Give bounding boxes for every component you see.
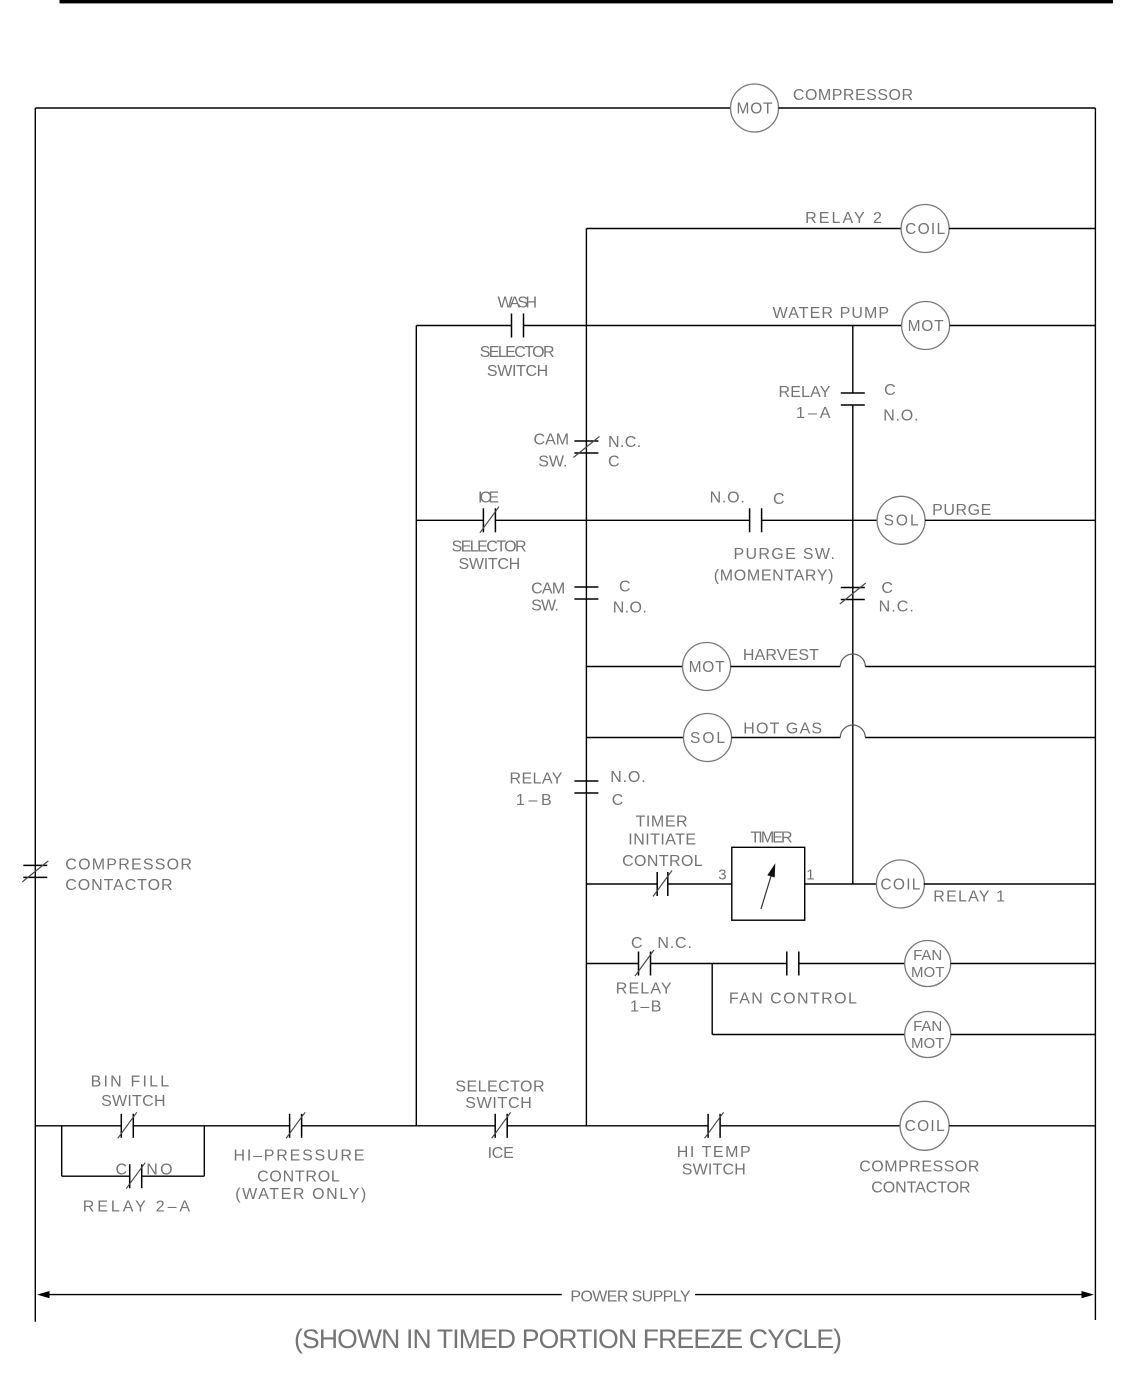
svg-text:COIL: COIL: [905, 1118, 945, 1135]
contact TIMER INITIATE CONTROL contact: [653, 871, 672, 897]
wire rung timer seg d: [924, 883, 1096, 885]
svg-text:1–B: 1–B: [516, 792, 552, 809]
svg-text:SWITCH: SWITCH: [459, 556, 521, 573]
wire rung fan1 seg b: [651, 963, 787, 965]
svg-text:MOT: MOT: [689, 659, 726, 676]
contact ICE selector switch contact: [480, 507, 499, 533]
motor FAN MOT 1: [905, 941, 951, 987]
svg-text:COIL: COIL: [880, 876, 920, 893]
contact HI TEMP SWITCH contact: [705, 1112, 724, 1138]
contact contact purge valve C N.C.: [840, 583, 866, 604]
svg-text:SWITCH: SWITCH: [465, 1095, 532, 1112]
contact BIN FILL SWITCH contact: [118, 1112, 137, 1138]
svg-text:FAN: FAN: [913, 947, 942, 964]
motor MOT harvest: [683, 643, 731, 691]
svg-text:RELAY: RELAY: [779, 384, 831, 401]
svg-text:C: C: [631, 935, 643, 952]
svg-text:C: C: [619, 579, 631, 596]
wire bottom rung seg a: [35, 1125, 121, 1127]
svg-text:SELECTOR: SELECTOR: [455, 1078, 544, 1095]
svg-text:CAM: CAM: [531, 580, 565, 597]
svg-text:SW.: SW.: [538, 454, 567, 471]
svg-text:1: 1: [806, 867, 814, 884]
svg-text:COMPRESSOR: COMPRESSOR: [793, 87, 913, 104]
svg-text:PURGE SW.: PURGE SW.: [734, 546, 835, 563]
wire rung4 seg d: [925, 519, 1095, 521]
svg-text:WASH: WASH: [498, 294, 538, 311]
svg-text:C: C: [884, 382, 896, 399]
svg-text:TIMER: TIMER: [636, 813, 688, 830]
motor MOT water pump: [902, 302, 950, 350]
wire rung harvest seg b: [731, 666, 841, 668]
svg-text:WATER PUMP: WATER PUMP: [773, 305, 890, 322]
wire rung2 right segment: [949, 228, 1095, 230]
motor FAN MOT 2: [905, 1012, 951, 1058]
wire bottom rung seg d: [507, 1125, 708, 1127]
wire rung1 left segment: [35, 107, 730, 109]
wire bus vertical A (wash corner to bottom bus): [415, 326, 417, 1126]
wire bottom rung seg e: [720, 1125, 900, 1127]
wire branch seg b: [142, 1175, 205, 1177]
wire branch drop left: [61, 1126, 63, 1176]
title bar: [60, 0, 1114, 3]
svg-text:MOT: MOT: [737, 100, 774, 117]
wire rung3 seg a: [416, 325, 511, 327]
svg-text:RELAY: RELAY: [510, 770, 563, 787]
svg-text:HI TEMP: HI TEMP: [677, 1144, 751, 1161]
wire branch rise right: [203, 1126, 205, 1176]
contact HI-PRESSURE CONTROL contact: [286, 1112, 305, 1138]
wire rung3 seg c: [950, 325, 1096, 327]
svg-text:1–A: 1–A: [796, 405, 831, 422]
svg-text:C: C: [773, 491, 785, 508]
svg-text:NO: NO: [146, 1161, 172, 1178]
solenoid SOL purge: [877, 496, 925, 544]
svg-text:SOL: SOL: [690, 730, 725, 747]
svg-text:PURGE: PURGE: [932, 502, 991, 519]
wire rung fan2 seg a: [712, 1034, 905, 1036]
svg-text:COMPRESSOR: COMPRESSOR: [859, 1158, 979, 1175]
timer U1 box: [732, 847, 805, 920]
wire bus vertical B (from relay2 rung to bottom bus): [585, 229, 587, 1126]
svg-text:N.O.: N.O.: [610, 769, 646, 786]
svg-text:CONTACTOR: CONTACTOR: [871, 1180, 970, 1197]
svg-text:C: C: [612, 792, 624, 809]
contact contact CAM SW (N.C.): [573, 437, 599, 458]
svg-text:ICE: ICE: [488, 1145, 514, 1162]
svg-text:MOT: MOT: [908, 318, 945, 335]
motor MOT compressor: [731, 84, 779, 132]
svg-text:CAM: CAM: [534, 432, 570, 449]
contact WASH selector switch: [512, 314, 524, 338]
svg-text:RELAY 2: RELAY 2: [805, 210, 882, 227]
power supply arrow left head: [37, 1291, 50, 1298]
svg-text:N.C.: N.C.: [608, 434, 641, 451]
svg-text:INITIATE: INITIATE: [628, 832, 696, 849]
svg-text:C: C: [881, 580, 893, 597]
svg-text:HOT GAS: HOT GAS: [743, 720, 822, 737]
solenoid SOL hot gas: [684, 714, 732, 762]
contact contact CAM SW (N.O.): [574, 587, 598, 599]
contact contact RELAY 2-A: [126, 1163, 145, 1189]
svg-text:SW.: SW.: [531, 598, 559, 615]
contact ICE selector switch bottom contact: [492, 1112, 511, 1138]
wire rung fan2 seg b: [951, 1034, 1096, 1036]
contact PURGE SW contact: [750, 508, 762, 532]
svg-text:(WATER ONLY): (WATER ONLY): [235, 1186, 366, 1203]
wire right power rail L2: [1094, 108, 1096, 1320]
svg-text:MOT: MOT: [911, 1035, 944, 1052]
svg-text:CONTROL: CONTROL: [257, 1169, 340, 1186]
contact FAN CONTROL contact: [787, 952, 799, 976]
svg-text:CONTROL: CONTROL: [622, 853, 703, 870]
svg-text:SWITCH: SWITCH: [487, 363, 548, 380]
svg-text:HARVEST: HARVEST: [743, 647, 819, 664]
wire bottom rung seg b: [133, 1125, 289, 1127]
wire bus vertical D (fan branch): [711, 964, 713, 1035]
wire branch seg a: [62, 1175, 130, 1177]
svg-text:C: C: [116, 1161, 128, 1178]
power supply arrow right head: [1082, 1291, 1095, 1298]
wire rung fan1 seg d: [951, 963, 1096, 965]
svg-text:SELECTOR: SELECTOR: [452, 538, 527, 555]
contact contact RELAY 1-B fan (N.C.): [635, 950, 654, 976]
wire rung3 seg b: [524, 325, 902, 327]
svg-text:N.O.: N.O.: [883, 408, 918, 425]
svg-text:RELAY 1: RELAY 1: [933, 889, 1005, 906]
svg-text:N.C.: N.C.: [657, 935, 692, 952]
svg-text:TIMER: TIMER: [750, 830, 792, 847]
contact contact COMPRESSOR CONTACTOR: [22, 861, 48, 882]
svg-text:N.O.: N.O.: [710, 490, 745, 507]
svg-text:SOL: SOL: [884, 513, 919, 530]
svg-text:(MOMENTARY): (MOMENTARY): [714, 568, 834, 585]
wire power supply line left: [49, 1294, 562, 1296]
svg-text:3: 3: [718, 867, 726, 884]
wire rung timer seg b: [668, 883, 732, 885]
wire rung4 seg a: [416, 519, 483, 521]
svg-text:N.O.: N.O.: [613, 599, 647, 616]
svg-text:COMPRESSOR: COMPRESSOR: [65, 857, 192, 874]
svg-text:HI–PRESSURE: HI–PRESSURE: [234, 1147, 365, 1164]
wire rung4 seg c: [762, 519, 878, 521]
svg-text:MOT: MOT: [911, 964, 944, 981]
svg-text:POWER SUPPLY: POWER SUPPLY: [570, 1289, 690, 1306]
svg-text:SWITCH: SWITCH: [101, 1093, 165, 1110]
svg-text:SWITCH: SWITCH: [682, 1162, 746, 1179]
svg-text:COIL: COIL: [905, 221, 945, 238]
svg-text:C: C: [608, 454, 620, 471]
svg-text:SELECTOR: SELECTOR: [480, 344, 555, 361]
contact contact RELAY 1-A: [841, 393, 865, 405]
wire rung1 right segment: [779, 107, 1096, 109]
wire bottom rung seg c: [302, 1125, 496, 1127]
wire left power rail L1: [34, 108, 36, 1322]
wire hop harvest over vertical C: [840, 654, 865, 667]
svg-text:ICE: ICE: [478, 490, 499, 507]
wire rung4 seg b: [495, 519, 749, 521]
wire power supply line right: [695, 1294, 1082, 1296]
svg-text:(SHOWN IN TIMED PORTION FREEZE: (SHOWN IN TIMED PORTION FREEZE CYCLE): [294, 1324, 842, 1354]
wire rung fan1 seg a: [586, 963, 638, 965]
svg-text:FAN CONTROL: FAN CONTROL: [729, 991, 857, 1008]
contact contact RELAY 1-B: [574, 781, 598, 793]
svg-text:BIN FILL: BIN FILL: [91, 1073, 170, 1090]
wire rung timer seg a: [586, 883, 657, 885]
svg-text:N.C.: N.C.: [879, 598, 914, 615]
wire bottom rung seg f: [949, 1125, 1095, 1127]
timer clock-hand arrow: [761, 863, 775, 909]
wire rung hotgas seg b: [732, 737, 841, 739]
svg-text:RELAY 2–A: RELAY 2–A: [83, 1198, 191, 1215]
coil COIL relay 1: [876, 860, 924, 908]
wire rung timer seg c: [805, 883, 877, 885]
wire hop hotgas over vertical C: [840, 725, 865, 738]
wire rung hotgas seg c: [865, 737, 1095, 739]
wire rung fan1 seg c: [799, 963, 905, 965]
wire rung harvest seg c: [865, 666, 1095, 668]
svg-text:1–B: 1–B: [630, 998, 661, 1015]
coil RELAY 2: [901, 205, 949, 253]
wire rung harvest seg a: [586, 666, 682, 668]
wire rung2 segment: [586, 228, 901, 230]
svg-text:CONTACTOR: CONTACTOR: [65, 877, 172, 894]
wire bus vertical C lower: [852, 405, 854, 884]
svg-text:FAN: FAN: [913, 1018, 942, 1035]
wire bus vertical C upper: [852, 326, 854, 394]
coil COIL compressor contactor: [900, 1101, 949, 1150]
wire rung hotgas seg a: [586, 737, 683, 739]
svg-text:RELAY: RELAY: [616, 981, 672, 998]
